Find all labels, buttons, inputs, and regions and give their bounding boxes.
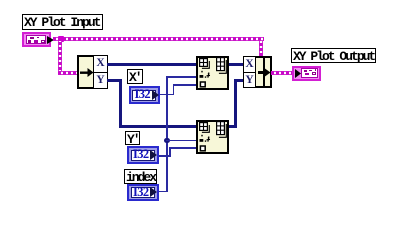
bundle cell X [243,56,256,73]
wire pink branch horizontal into unbundle [58,71,77,75]
unbundle cell X [93,55,108,73]
wire lower out vertical up [234,79,237,128]
unbundle block [77,55,108,89]
wire pink main horizontal [53,37,264,41]
wire pink branch vertical [58,41,62,75]
wire Y array: vertical down [119,79,122,128]
label XY Plot Input [22,14,103,30]
terminal XY Plot Output (cluster indicator) [292,66,321,81]
label XY Plot Output [291,48,376,63]
wire Y' h1 [159,155,171,157]
wire Y' h2 into lower block [169,147,196,149]
wire pink bundle to output terminal [271,71,292,75]
wire Y array: horizontal to lower block [119,125,196,128]
terminal Y' I32 [127,146,159,164]
junction index [164,138,170,144]
function block lower (Replace Array Subset) [196,120,229,154]
wire lower out to bundle Y [234,79,243,82]
wire pink vertical into bundle [259,41,263,56]
wire index h1 [159,191,168,193]
junction pink [58,36,64,42]
bundle divider [263,58,265,86]
bundle arrow [258,67,271,78]
wire lower block out [229,125,237,128]
bundle cell Y [243,72,256,89]
label X' [127,69,143,84]
function block upper (Replace Array Subset) [196,56,229,90]
unbundle cell Y [93,72,108,90]
wire index branch to lower block [166,140,196,142]
bundle block [243,56,272,88]
wire Y' vertical [169,147,171,157]
label index [124,169,157,184]
wire X' h2 into upper block [173,84,197,86]
wire index upper into block [166,76,196,78]
label Y' [125,131,140,145]
wire X array: upper block to bundle [229,63,243,66]
terminal X' I32 [129,86,161,104]
unbundle arrow [80,68,94,77]
wire X array: unbundle to upper block [107,63,196,66]
terminal XY Plot Input (cluster control) [22,32,51,47]
wire X' vertical [173,84,175,95]
wire X' h1 [160,94,174,96]
wire Y array: unbundle right [107,79,122,82]
wire index vertical [166,76,168,192]
terminal index I32 [127,184,159,201]
